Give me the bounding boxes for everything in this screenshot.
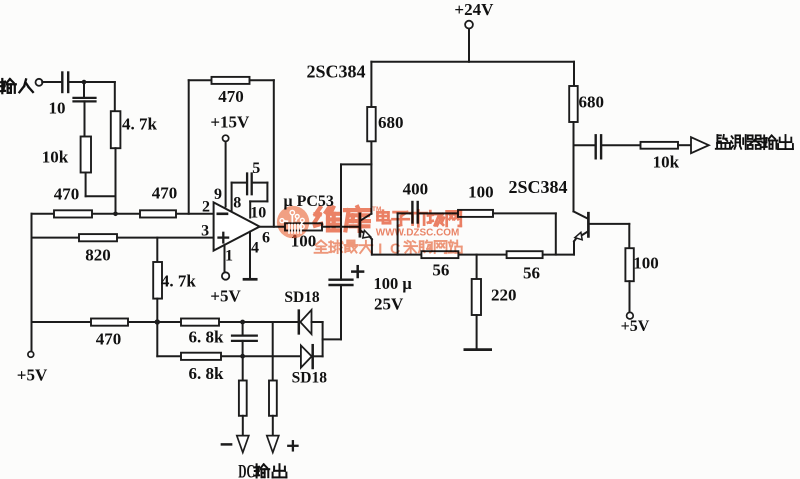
svg-text:100: 100 <box>468 182 494 201</box>
svg-text:56: 56 <box>432 260 449 279</box>
svg-text:680: 680 <box>378 113 404 132</box>
svg-text:4. 7k: 4. 7k <box>161 271 197 290</box>
svg-text:220: 220 <box>491 286 517 305</box>
svg-text:DC: DC <box>238 462 255 479</box>
svg-text:10: 10 <box>49 98 66 117</box>
svg-text:10k: 10k <box>42 148 69 167</box>
svg-text:100 μ: 100 μ <box>374 274 413 293</box>
svg-text:10: 10 <box>250 205 266 222</box>
svg-text:1: 1 <box>225 247 233 264</box>
svg-text:2SC384: 2SC384 <box>508 177 567 197</box>
svg-text:5: 5 <box>252 160 260 177</box>
svg-text:+5V: +5V <box>210 286 241 305</box>
svg-text:2: 2 <box>202 198 210 215</box>
svg-text:400: 400 <box>403 179 429 198</box>
svg-text:+24V: +24V <box>454 0 494 19</box>
svg-text:25V: 25V <box>374 294 404 313</box>
svg-text:3: 3 <box>201 222 209 239</box>
svg-text:6. 8k: 6. 8k <box>189 327 225 346</box>
svg-text:470: 470 <box>218 87 244 106</box>
svg-text:WWW.DZSC.COM: WWW.DZSC.COM <box>376 227 460 238</box>
svg-text:470: 470 <box>96 329 122 348</box>
svg-text:+15V: +15V <box>210 112 250 131</box>
svg-text:470: 470 <box>54 184 80 203</box>
svg-text:10k: 10k <box>653 152 680 171</box>
svg-text:C: C <box>390 242 401 258</box>
svg-text:4: 4 <box>251 239 259 256</box>
svg-text:8: 8 <box>233 194 241 211</box>
svg-text:820: 820 <box>85 245 111 264</box>
svg-text:4. 7k: 4. 7k <box>122 114 158 133</box>
svg-text:+5V: +5V <box>17 365 48 384</box>
svg-text:56: 56 <box>523 263 540 282</box>
svg-text:+5V: +5V <box>621 318 650 335</box>
svg-text:6: 6 <box>262 229 270 246</box>
svg-text:680: 680 <box>579 92 605 111</box>
svg-text:SD18: SD18 <box>284 289 320 306</box>
svg-text:2SC384: 2SC384 <box>306 62 365 82</box>
svg-text:470: 470 <box>152 183 178 202</box>
svg-text:SD18: SD18 <box>292 370 328 387</box>
svg-text:I: I <box>378 242 382 258</box>
svg-text:6. 8k: 6. 8k <box>189 364 225 383</box>
svg-text:100: 100 <box>633 254 659 273</box>
svg-text:9: 9 <box>214 186 222 203</box>
